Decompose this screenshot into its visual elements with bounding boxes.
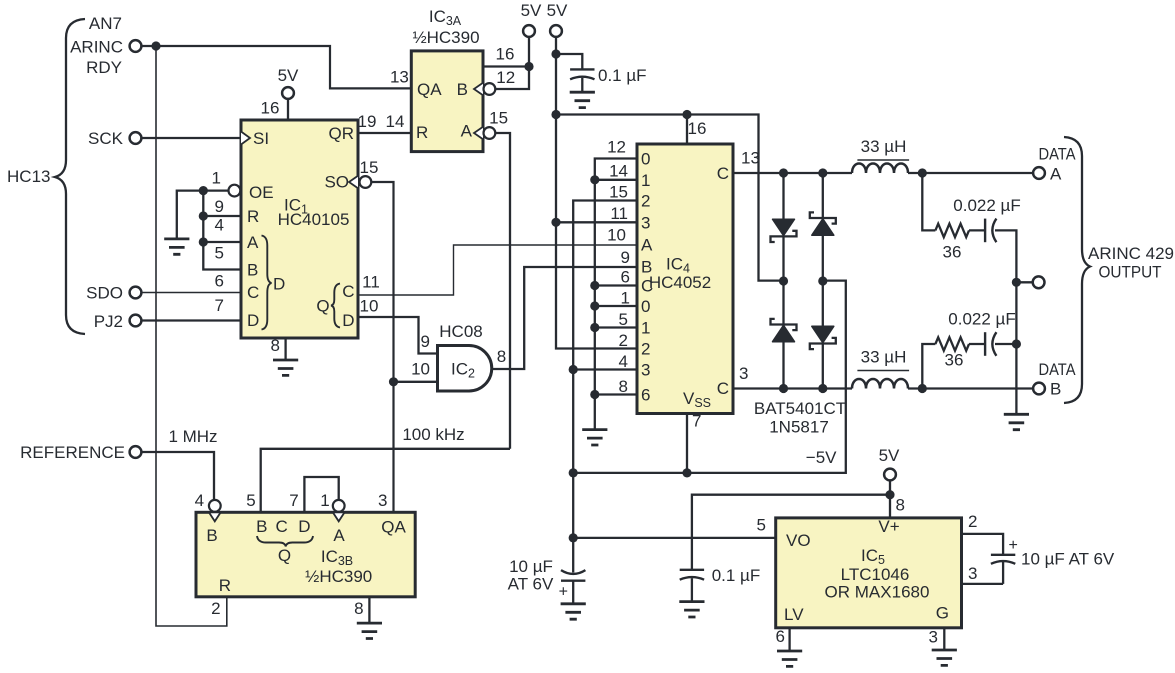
wire +5V to IC4 pin 16 and diode clamp top bbox=[556, 115, 784, 281]
wire diode column left bbox=[782, 173, 784, 389]
wire IC4 VSS pin 7 to -5V bbox=[686, 414, 688, 473]
svg-text:ARINC: ARINC bbox=[70, 38, 123, 57]
junction DATA B / RC branch bbox=[918, 384, 927, 393]
svg-text:10 µF AT 6V: 10 µF AT 6V bbox=[1021, 550, 1115, 569]
svg-text:HC4052: HC4052 bbox=[649, 273, 711, 292]
svg-text:QR: QR bbox=[329, 124, 355, 143]
svg-text:1: 1 bbox=[621, 289, 630, 308]
svg-text:19: 19 bbox=[358, 112, 377, 131]
svg-text:3: 3 bbox=[968, 564, 977, 583]
svg-text:QA: QA bbox=[381, 518, 406, 537]
junction clamp -5V right bbox=[818, 276, 827, 285]
junction gnd rail pin 8 bbox=[590, 390, 599, 399]
svg-text:DATA: DATA bbox=[1039, 360, 1077, 379]
IC3A half-HC390 counter bbox=[411, 7, 483, 152]
svg-text:0: 0 bbox=[641, 150, 650, 169]
svg-text:16: 16 bbox=[261, 99, 280, 118]
svg-text:HC40105: HC40105 bbox=[278, 210, 350, 229]
svg-text:D: D bbox=[298, 517, 310, 536]
wire SCK to IC1 SI bbox=[142, 137, 242, 139]
wire IC1 SO / IC3B QA net bbox=[371, 182, 393, 512]
junction 5V / pin16 bbox=[524, 62, 533, 71]
junction mid output node bbox=[1012, 278, 1021, 287]
junction R tie bbox=[199, 211, 208, 220]
svg-text:0.1 µF: 0.1 µF bbox=[712, 566, 761, 585]
inductor L2 33 uH bbox=[852, 348, 909, 389]
diode D1 BAT5401CT top-left bbox=[771, 219, 797, 242]
diode D3 bottom-left bbox=[771, 319, 797, 342]
svg-text:6: 6 bbox=[776, 627, 785, 646]
svg-text:−5V: −5V bbox=[806, 448, 837, 467]
svg-text:0: 0 bbox=[641, 297, 650, 316]
IC5 pin numbers bbox=[757, 496, 978, 647]
IC1 HC40105 FIFO register bbox=[241, 120, 358, 338]
svg-text:V+: V+ bbox=[878, 517, 899, 536]
svg-text:AT 6V: AT 6V bbox=[508, 575, 554, 594]
IC3B pin 1 bubble bbox=[333, 500, 345, 512]
svg-text:8: 8 bbox=[354, 599, 363, 618]
svg-text:15: 15 bbox=[609, 183, 628, 202]
wire to IC2 pin 10 bbox=[394, 381, 438, 383]
svg-text:D: D bbox=[273, 274, 285, 293]
brace ARINC 429 OUTPUT bbox=[1064, 137, 1090, 403]
wire ARINC RDY to IC3A pin 13 bbox=[142, 46, 412, 88]
svg-text:4: 4 bbox=[619, 352, 628, 371]
wire IC2 output to IC4 pin B bbox=[492, 267, 637, 369]
IC3A B bubble bbox=[484, 83, 496, 95]
wire IC3A pin 13 stub bbox=[330, 87, 411, 89]
junction 5V rail / 0.1uF tap bbox=[551, 49, 560, 58]
junction SO net at IC2 pin 10 bbox=[389, 377, 398, 386]
svg-text:REFERENCE: REFERENCE bbox=[20, 443, 125, 462]
wire -5V to VO line bbox=[572, 473, 574, 538]
svg-text:D: D bbox=[342, 311, 354, 330]
svg-text:4: 4 bbox=[215, 216, 224, 235]
svg-text:36: 36 bbox=[943, 243, 962, 262]
svg-text:16: 16 bbox=[496, 45, 515, 64]
svg-text:10: 10 bbox=[411, 360, 430, 379]
svg-text:SDO: SDO bbox=[86, 284, 123, 303]
svg-text:R: R bbox=[247, 207, 259, 226]
svg-text:A: A bbox=[247, 233, 259, 252]
svg-text:3: 3 bbox=[641, 213, 650, 232]
junction VO / 10uF bbox=[569, 533, 578, 542]
svg-text:4: 4 bbox=[195, 491, 204, 510]
svg-text:Q: Q bbox=[316, 297, 329, 316]
ground at IC4 input rail bbox=[582, 430, 607, 445]
IC1 SO bubble bbox=[360, 176, 372, 188]
junction clamp +5V left bbox=[779, 276, 788, 285]
junction gnd rail pin 14 bbox=[590, 175, 599, 184]
svg-text:Q: Q bbox=[278, 546, 291, 565]
svg-text:3: 3 bbox=[929, 628, 938, 647]
wire VO line to IC5 pin 5 bbox=[573, 537, 776, 539]
junction diode right / pin3 line bbox=[818, 384, 827, 393]
wire SDO to IC1 C bbox=[142, 292, 242, 294]
svg-text:5V: 5V bbox=[278, 66, 299, 85]
svg-text:7: 7 bbox=[289, 491, 298, 510]
svg-text:3: 3 bbox=[641, 361, 650, 380]
svg-text:15: 15 bbox=[489, 109, 508, 128]
svg-text:1: 1 bbox=[641, 171, 650, 190]
svg-text:10 µF: 10 µF bbox=[509, 557, 553, 576]
svg-text:A: A bbox=[333, 526, 345, 545]
brace HC13 input connector bbox=[55, 19, 85, 334]
svg-text:LV: LV bbox=[784, 605, 804, 624]
capacitor C2 0.022 uF (bottom) bbox=[985, 332, 996, 356]
svg-text:C: C bbox=[275, 517, 287, 536]
svg-text:½HC390: ½HC390 bbox=[305, 567, 372, 586]
svg-text:3: 3 bbox=[378, 491, 387, 510]
svg-text:2: 2 bbox=[211, 599, 220, 618]
resistor R1 36 (top) bbox=[935, 224, 969, 237]
IC1 pin numbers bbox=[212, 99, 405, 356]
svg-text:10: 10 bbox=[360, 297, 379, 316]
svg-text:7: 7 bbox=[692, 412, 701, 431]
junction diode left / C line bbox=[779, 168, 788, 177]
svg-text:2: 2 bbox=[641, 340, 650, 359]
capacitor 0.1 uF bottom bbox=[680, 570, 704, 602]
svg-text:BAT5401CT: BAT5401CT bbox=[754, 399, 846, 418]
terminal DATA B bbox=[1033, 383, 1045, 395]
svg-text:A: A bbox=[1050, 165, 1062, 184]
junction pin16 net / IC4 bbox=[682, 110, 691, 119]
svg-text:5V: 5V bbox=[879, 446, 900, 465]
svg-text:1 MHz: 1 MHz bbox=[168, 427, 217, 446]
IC4 HC4052 multiplexer bbox=[637, 144, 733, 414]
junction 5V IC5 / 0.1uF line bbox=[885, 490, 894, 499]
terminal mid output bbox=[1033, 276, 1045, 288]
ground at bottom 0.1uF bbox=[679, 602, 704, 617]
svg-text:B: B bbox=[1050, 380, 1061, 399]
AND gate IC2 HC08 bbox=[411, 322, 506, 391]
svg-text:C: C bbox=[247, 283, 259, 302]
junction A tie bbox=[199, 237, 208, 246]
svg-text:LTC1046: LTC1046 bbox=[841, 565, 910, 584]
junction diode left / pin3 line bbox=[779, 384, 788, 393]
wire IC3B QB pin 5, 100 kHz line bbox=[261, 449, 510, 513]
svg-text:5: 5 bbox=[246, 491, 255, 510]
svg-text:C: C bbox=[717, 164, 729, 183]
svg-text:11: 11 bbox=[362, 273, 380, 292]
svg-text:5V: 5V bbox=[547, 1, 568, 20]
svg-text:5: 5 bbox=[215, 244, 224, 263]
svg-text:33 µH: 33 µH bbox=[861, 137, 907, 156]
svg-text:2: 2 bbox=[641, 192, 650, 211]
svg-text:1: 1 bbox=[320, 491, 329, 510]
svg-text:14: 14 bbox=[386, 112, 405, 131]
IC3A pin numbers bbox=[390, 45, 515, 128]
wire IC3B QD pin 7 to A pin 1 loop bbox=[304, 477, 338, 512]
svg-text:PJ2: PJ2 bbox=[94, 312, 123, 331]
svg-text:RDY: RDY bbox=[86, 58, 122, 77]
junction -5V rail pin 4 bbox=[569, 365, 578, 374]
junction ARINC RDY / reset rail bbox=[151, 41, 160, 50]
ground at IC5 LV pin 6 bbox=[777, 628, 802, 667]
junction DATA A / RC branch bbox=[918, 168, 927, 177]
wire diode column right bbox=[822, 173, 824, 389]
svg-text:C: C bbox=[717, 379, 729, 398]
terminal PJ2 bbox=[130, 315, 142, 327]
svg-text:3: 3 bbox=[739, 364, 748, 383]
IC1 OE bubble bbox=[229, 185, 241, 197]
diode D2 top-right bbox=[810, 212, 836, 235]
svg-text:2: 2 bbox=[619, 331, 628, 350]
svg-text:33 µH: 33 µH bbox=[861, 348, 907, 367]
junction diode right / C line bbox=[818, 168, 827, 177]
wire 5V to bottom 0.1uF bbox=[692, 495, 890, 570]
svg-text:11: 11 bbox=[610, 204, 628, 223]
svg-text:SI: SI bbox=[253, 129, 269, 148]
ground at IC1 pin 8 bbox=[273, 338, 298, 375]
svg-text:12: 12 bbox=[607, 138, 626, 157]
svg-text:AN7: AN7 bbox=[89, 14, 122, 33]
resistor R2 36 (bottom) bbox=[935, 337, 969, 350]
svg-text:HC08: HC08 bbox=[439, 322, 482, 341]
ground at IC1 OE tie bbox=[164, 239, 189, 254]
wire 5V to IC3A pin 16 and B bbox=[483, 37, 529, 89]
capacitor 0.1 uF top decoupling bbox=[556, 54, 595, 92]
capacitor 10 uF AT 6V (left) bbox=[559, 538, 586, 604]
svg-text:9: 9 bbox=[621, 248, 630, 267]
IC3A A bubble bbox=[484, 127, 496, 139]
capacitor C1 0.022 uF (top) bbox=[985, 219, 996, 243]
svg-text:8: 8 bbox=[619, 377, 628, 396]
junction bottom RC / mid rail bbox=[1012, 339, 1021, 348]
svg-text:8: 8 bbox=[896, 496, 905, 515]
terminal SCK bbox=[130, 132, 142, 144]
svg-text:6: 6 bbox=[215, 272, 224, 291]
inductor L1 33 uH bbox=[852, 137, 909, 173]
svg-text:16: 16 bbox=[688, 119, 707, 138]
svg-text:A: A bbox=[641, 236, 653, 255]
svg-text:5: 5 bbox=[619, 310, 628, 329]
junction -5V / 10uF rail bbox=[569, 468, 578, 477]
svg-text:ARINC 429: ARINC 429 bbox=[1088, 244, 1174, 263]
wire -5V net bbox=[573, 281, 846, 473]
svg-text:R: R bbox=[219, 576, 231, 595]
svg-text:OR MAX1680: OR MAX1680 bbox=[825, 583, 930, 602]
power 5V #2 bbox=[547, 1, 568, 37]
IC3B pin numbers bbox=[195, 491, 388, 618]
svg-text:+: + bbox=[559, 584, 568, 601]
svg-text:13: 13 bbox=[390, 67, 409, 86]
svg-text:B: B bbox=[457, 80, 468, 99]
junction 5V rail / pin 11 bbox=[551, 218, 560, 227]
junction gnd rail pin 1 bbox=[590, 301, 599, 310]
wire IC4 pins 15 and 4 to -5V bbox=[573, 201, 637, 473]
terminal REFERENCE bbox=[130, 446, 142, 458]
IC3B pin 4 bubble bbox=[209, 500, 221, 512]
wire IC1 QR to IC3A R bbox=[358, 132, 411, 134]
svg-text:6: 6 bbox=[621, 268, 630, 287]
svg-text:8: 8 bbox=[271, 336, 280, 355]
svg-text:9: 9 bbox=[215, 197, 224, 216]
wire IC4 pin 16 stem bbox=[686, 115, 688, 145]
power 5V at IC1 pin 16 bbox=[278, 66, 299, 120]
wire IC1 QD to IC2 pin 9 bbox=[358, 317, 438, 354]
junction gnd rail pin 6 bbox=[590, 281, 599, 290]
svg-text:½HC390: ½HC390 bbox=[412, 28, 479, 47]
wire +5V rail to IC4 pins 16 11 2 bbox=[556, 37, 637, 349]
junction gnd rail pin 5 bbox=[590, 323, 599, 332]
svg-text:SCK: SCK bbox=[88, 129, 124, 148]
terminal ARINC RDY bbox=[130, 40, 142, 52]
svg-text:1: 1 bbox=[641, 319, 650, 338]
svg-text:6: 6 bbox=[641, 386, 650, 405]
wire RC branch bottom bbox=[922, 282, 1016, 414]
svg-text:HC13: HC13 bbox=[7, 167, 50, 186]
svg-text:OUTPUT: OUTPUT bbox=[1099, 263, 1162, 282]
svg-text:D: D bbox=[247, 311, 259, 330]
svg-text:0.022 µF: 0.022 µF bbox=[948, 310, 1015, 329]
svg-text:8: 8 bbox=[497, 347, 506, 366]
junction 5V rail / pin 16 net bbox=[551, 110, 560, 119]
wire to mid terminal bbox=[1016, 281, 1033, 283]
svg-text:A: A bbox=[461, 122, 473, 141]
ground at top 0.1uF bbox=[570, 92, 595, 107]
svg-text:0.022 µF: 0.022 µF bbox=[953, 196, 1020, 215]
svg-text:QA: QA bbox=[417, 80, 442, 99]
ground at output mid bbox=[1004, 414, 1029, 429]
svg-text:R: R bbox=[416, 123, 428, 142]
svg-text:IC3A: IC3A bbox=[429, 7, 462, 28]
power 5V #1 bbox=[521, 1, 542, 37]
wire IC3A A to 100 kHz line bbox=[495, 133, 510, 449]
svg-text:B: B bbox=[206, 526, 217, 545]
svg-text:SO: SO bbox=[324, 173, 349, 192]
svg-text:C: C bbox=[342, 282, 354, 301]
wire PJ2 to IC1 D bbox=[142, 319, 242, 321]
ground at IC5 G pin 3 bbox=[932, 628, 957, 666]
svg-text:2: 2 bbox=[968, 512, 977, 531]
svg-text:VO: VO bbox=[786, 531, 811, 550]
svg-text:1: 1 bbox=[212, 169, 221, 188]
wire IC4 pin 3 output line bbox=[733, 387, 1033, 389]
junction -5V / IC4 VSS bbox=[682, 468, 691, 477]
wire IC1 QC to IC4 pin A bbox=[358, 245, 637, 295]
wire IC4 pin 13 output line bbox=[733, 172, 1033, 174]
svg-text:+: + bbox=[1009, 537, 1018, 554]
ground at IC3B pin 8 bbox=[357, 597, 382, 639]
svg-text:B: B bbox=[256, 517, 267, 536]
svg-text:13: 13 bbox=[741, 149, 760, 168]
svg-text:36: 36 bbox=[945, 351, 964, 370]
wire REFERENCE to IC3B pin 4 bbox=[142, 452, 215, 499]
ground at left 10uF bbox=[561, 604, 586, 619]
svg-text:15: 15 bbox=[360, 158, 379, 177]
svg-text:1N5817: 1N5817 bbox=[769, 418, 829, 437]
svg-text:12: 12 bbox=[496, 68, 515, 87]
svg-text:9: 9 bbox=[421, 332, 430, 351]
wire IC4 grounded pins 12 14 6 1 5 8 bbox=[595, 159, 637, 430]
wire reset rail to IC3B pin 2 bbox=[156, 46, 227, 626]
svg-text:G: G bbox=[936, 604, 949, 623]
capacitor 10 uF AT 6V (right) bbox=[962, 534, 1018, 584]
svg-text:B: B bbox=[247, 261, 258, 280]
wire RC branch top bbox=[922, 173, 1016, 282]
svg-text:DATA: DATA bbox=[1039, 145, 1077, 164]
svg-text:10: 10 bbox=[607, 226, 626, 245]
IC5 LTC1046 charge pump bbox=[776, 517, 962, 628]
svg-text:5V: 5V bbox=[521, 1, 542, 20]
svg-text:14: 14 bbox=[609, 162, 628, 181]
svg-text:OE: OE bbox=[249, 183, 274, 202]
terminal DATA A bbox=[1033, 167, 1045, 179]
IC4 pin numbers bbox=[607, 138, 760, 431]
IC3B half-HC390 counter bbox=[196, 512, 415, 597]
svg-text:100 kHz: 100 kHz bbox=[402, 425, 464, 444]
svg-text:5: 5 bbox=[757, 515, 766, 534]
power 5V at IC5 bbox=[879, 446, 900, 518]
junction OE tie bbox=[199, 186, 208, 195]
svg-text:0.1 µF: 0.1 µF bbox=[598, 66, 647, 85]
terminal SDO bbox=[130, 287, 142, 299]
svg-text:7: 7 bbox=[215, 296, 224, 315]
wire IC1 OE R A B tie bbox=[177, 191, 241, 270]
diode D4 bottom-right bbox=[810, 326, 836, 349]
